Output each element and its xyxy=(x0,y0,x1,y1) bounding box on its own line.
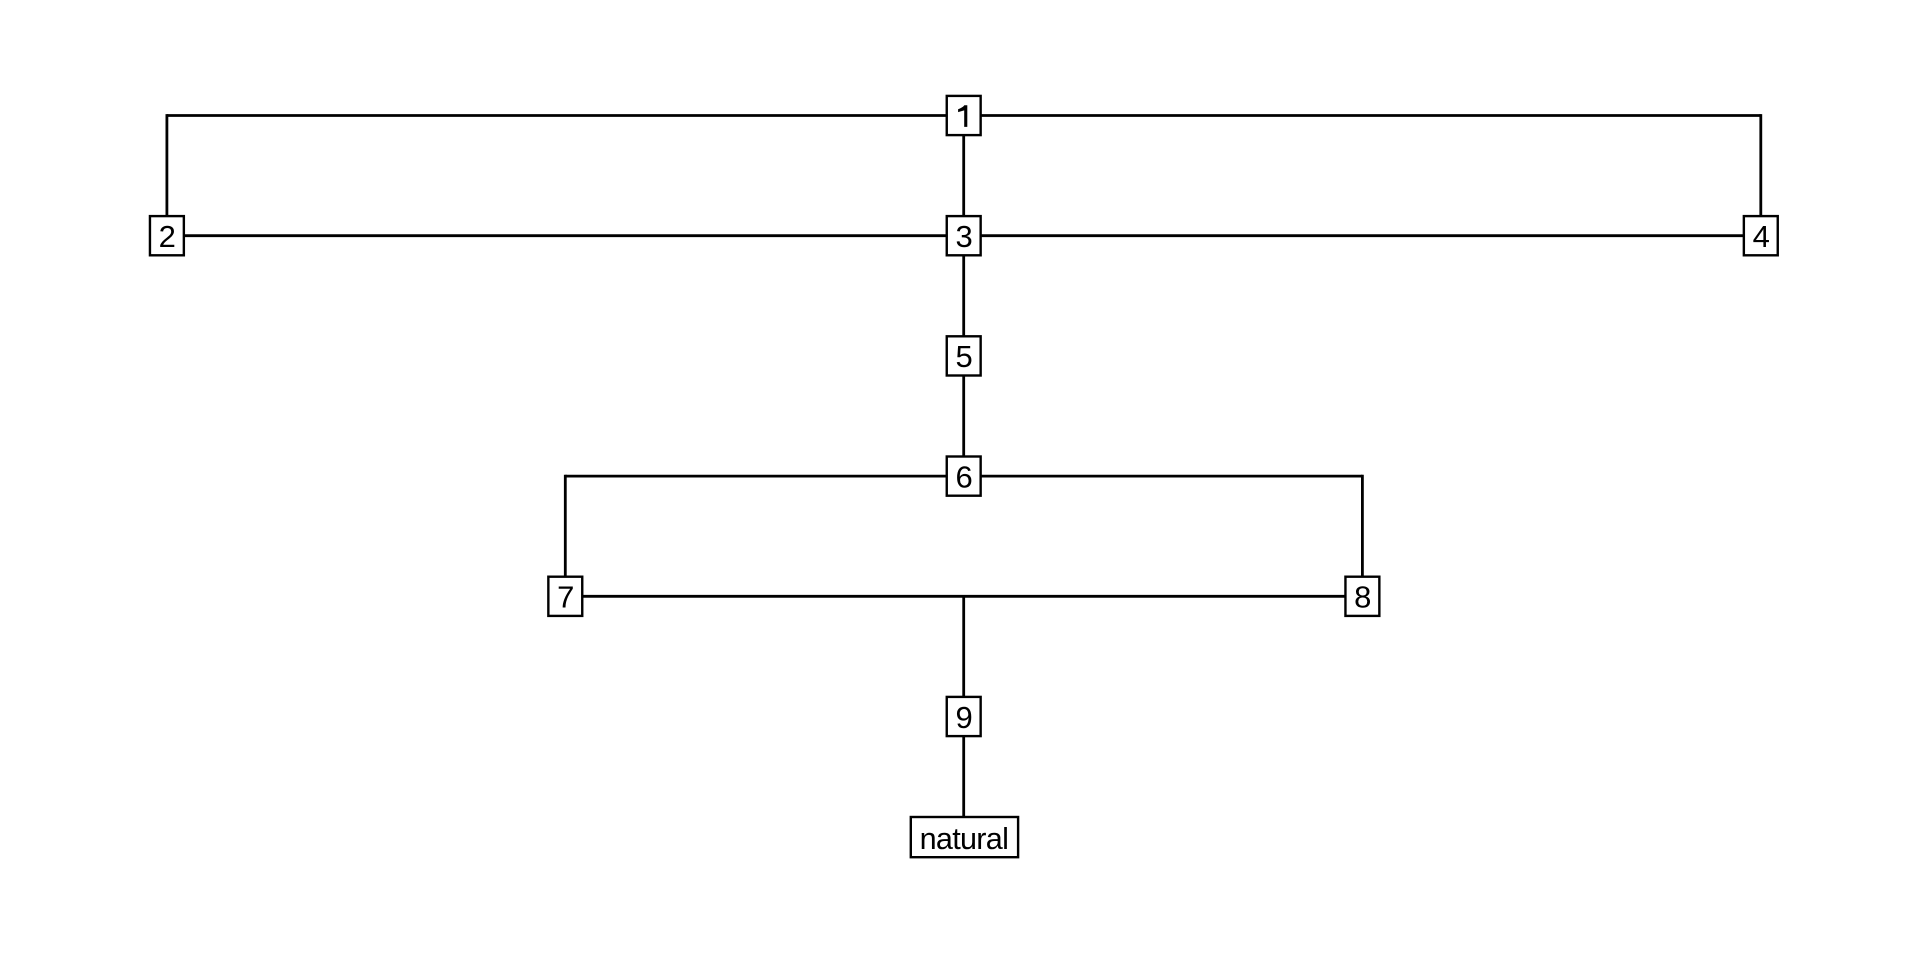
svg-text:natural: natural xyxy=(920,822,1009,856)
wire T-junction down to node 9 and natural xyxy=(962,596,965,836)
svg-text:4: 4 xyxy=(1753,219,1770,254)
node natural xyxy=(911,817,1018,857)
node 8 xyxy=(1345,577,1379,616)
node 1 xyxy=(947,96,981,135)
node 9 xyxy=(947,697,981,736)
wire 6 elbow horizontal rail xyxy=(565,475,1362,478)
node 2 xyxy=(150,216,184,255)
node 3 xyxy=(947,216,981,255)
wire 7-8 horizontal rail xyxy=(565,595,1362,598)
svg-text:8: 8 xyxy=(1354,580,1371,615)
node 6 xyxy=(947,457,981,496)
svg-text:9: 9 xyxy=(955,700,972,735)
svg-text:6: 6 xyxy=(955,459,972,494)
wire 1-3 vertical xyxy=(962,116,965,236)
wire drop from elbow rail to node 7 xyxy=(564,475,567,577)
wire 1-2 top horizontal left segment and 1-4 right segment xyxy=(167,114,1761,117)
wire drop from top rail to node 4 xyxy=(1759,114,1762,216)
node 5 xyxy=(947,336,981,375)
wire drop from elbow rail to node 8 xyxy=(1361,475,1364,577)
wire drop from top rail to node 2 xyxy=(165,114,168,216)
wire 3-5-6 vertical xyxy=(962,236,965,476)
node 7 xyxy=(548,577,582,616)
svg-text:5: 5 xyxy=(955,339,972,374)
wire 2-3-4 horizontal rail xyxy=(167,234,1761,237)
svg-text:7: 7 xyxy=(557,580,574,615)
svg-text:3: 3 xyxy=(955,219,972,254)
svg-text:2: 2 xyxy=(159,219,176,254)
node 4 xyxy=(1744,216,1778,255)
